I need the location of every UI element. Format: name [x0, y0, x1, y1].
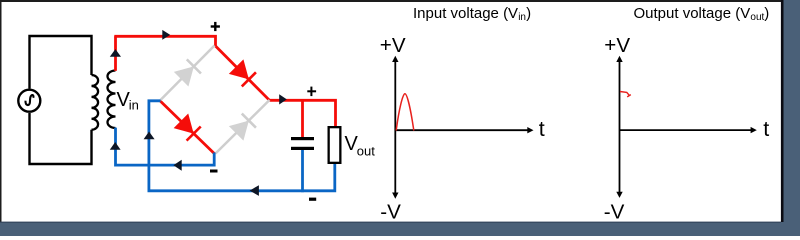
- card left border: [0, 0, 2, 222]
- card top border: [0, 0, 781, 2]
- current arrow up on blue secondary-bottom wire: [110, 142, 121, 150]
- svg-text:Output voltage (V: Output voltage (V: [634, 5, 751, 22]
- transformer primary coil: [92, 75, 99, 130]
- wire: secondary top vertical (red): [114, 36, 117, 71]
- svg-text:+V: +V: [380, 34, 406, 57]
- capacitor C1 top plate: [291, 137, 314, 140]
- capacitor C1 bottom plate: [291, 147, 314, 150]
- output graph vertical axis: [619, 60, 621, 194]
- svg-text:): ): [526, 5, 531, 22]
- grey diagonal bottom-node to right-node: [216, 100, 270, 154]
- current arrow right on top red wire: [162, 30, 170, 40]
- wire: bridge arm left node to bottom node (red): [160, 101, 215, 154]
- plus label at load top: [307, 90, 316, 92]
- svg-text:out: out: [750, 12, 764, 23]
- AC source loop (primary circuit rectangle): [30, 36, 92, 164]
- wire: bridge arm top node to right node (red): [216, 46, 270, 100]
- svg-text:in: in: [129, 98, 139, 113]
- grey diagonal left-node to top-node: [161, 46, 215, 101]
- input graph horizontal axis: [395, 129, 529, 131]
- plus label at bridge top node: [211, 25, 220, 27]
- svg-text:-V: -V: [604, 201, 625, 224]
- transformer secondary coil: [108, 71, 116, 129]
- card bottom edge: [0, 222, 781, 223]
- svg-text:t: t: [763, 117, 769, 141]
- current arrow left on blue bottom wire: [250, 185, 259, 196]
- AC source: [18, 90, 40, 112]
- output graph horizontal axis: [620, 129, 753, 131]
- current arrow right on output red wire: [279, 94, 287, 104]
- svg-text:-V: -V: [380, 201, 401, 224]
- output waveform start mark: [620, 92, 631, 97]
- diode D2 (grey, upper-left arm): [174, 59, 201, 86]
- current arrow left on blue return wire: [173, 160, 181, 171]
- svg-text:Input voltage (V: Input voltage (V: [413, 5, 518, 22]
- input waveform half-sine pulse: [396, 94, 414, 131]
- diode D4 (grey, lower-right arm): [229, 113, 256, 140]
- wire: capacitor top branch (red): [301, 99, 304, 137]
- diode D1 (red, upper-right arm): [229, 59, 256, 86]
- resistor load Rload: [329, 127, 341, 163]
- svg-text:t: t: [539, 117, 545, 141]
- minus label at load bottom: [309, 198, 316, 201]
- diode D3 (red, lower-left arm): [174, 114, 201, 141]
- wire: capacitor bottom branch (blue): [301, 149, 304, 192]
- wire: left node down and along bottom to load bottom (blue): [149, 101, 335, 191]
- svg-text:in: in: [518, 12, 526, 23]
- card right border: [781, 0, 784, 222]
- minus label at bridge bottom node: [210, 170, 218, 173]
- svg-text:out: out: [357, 144, 375, 159]
- svg-text:+V: +V: [604, 34, 630, 57]
- input graph vertical axis: [394, 60, 396, 195]
- wire: right node to load top (red): [268, 100, 335, 127]
- svg-text:): ): [764, 5, 769, 22]
- current arrow up on red secondary-top wire: [110, 49, 121, 57]
- wire: bridge bottom node return to secondary bottom (blue): [116, 128, 215, 166]
- AC source sine symbol: [25, 95, 33, 105]
- current arrow up on blue left-node wire: [144, 132, 155, 140]
- wire: top horizontal to bridge top node (red): [114, 36, 215, 46]
